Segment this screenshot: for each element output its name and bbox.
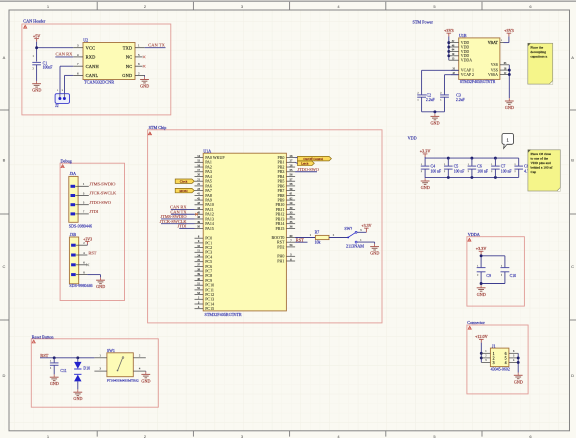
microcontroller U1A body [203,148,286,317]
junction dots on rails [447,157,497,179]
wire CANH to J2 [60,66,73,94]
svg-text:VDD: VDD [461,41,470,45]
svg-text:+3.3V: +3.3V [420,149,431,154]
regulator U1B body [459,33,500,84]
svg-text:C: C [3,264,6,269]
svg-text:U2: U2 [83,38,88,43]
port On/Off Control at PB0 [298,156,332,161]
svg-text:GND: GND [370,251,379,256]
svg-text:U1A: U1A [203,148,211,153]
svg-text:Clock: Clock [180,179,188,183]
svg-text:Place C8 close: Place C8 close [531,152,552,156]
svg-text:C5: C5 [454,165,459,169]
block box STM Chip [148,130,382,323]
svg-text:43045-0602: 43045-0602 [491,366,510,371]
svg-text:D: D [3,373,6,378]
ground VDDA [477,285,486,297]
svg-text:2: 2 [491,171,492,173]
svg-text:JTCK-SWCLK: JTCK-SWCLK [89,191,117,196]
svg-text:U1B: U1B [459,33,467,38]
svg-text:100nF: 100nF [43,66,53,70]
svg-text:2: 2 [501,274,502,276]
svg-text:100 nF: 100 nF [431,169,442,173]
SW1 pins [94,353,145,371]
svg-text:CANL: CANL [86,73,99,78]
svg-text:GND: GND [140,84,149,89]
block box VDDA [467,237,525,306]
svg-text:100 nF: 100 nF [477,169,488,173]
svg-text:2: 2 [440,92,441,94]
svg-text:1: 1 [493,352,495,356]
svg-text:RST: RST [88,250,96,255]
power +3V3 right [504,28,514,37]
switch SW? 2113NAM [344,226,364,248]
svg-text:PTS645SM43SMTR92: PTS645SM43SMTR92 [107,378,139,382]
note place C8 close [528,150,560,191]
svg-text:+12.0V: +12.0V [475,334,488,339]
svg-text:1: 1 [515,164,516,166]
svg-text:1: 1 [477,265,478,267]
svg-text:JTDI: JTDI [177,224,187,229]
connector J2 [55,89,69,108]
net label CAN RX [55,52,73,57]
capacitor C8 [514,158,532,177]
svg-text:C9: C9 [486,274,491,278]
svg-text:VDD: VDD [461,50,470,54]
ground below C11 [50,374,59,386]
capacitor C11 [50,358,67,375]
svg-text:+3V3: +3V3 [444,28,454,33]
svg-text:2: 2 [50,368,51,370]
svg-text:JTDI: JTDI [89,209,98,214]
wire switch to gnd [357,238,375,244]
svg-text:SDS-9980446: SDS-9980446 [69,224,92,229]
svg-text:J3A: J3A [70,171,77,176]
svg-text:RST: RST [40,353,48,358]
wire VCAP2 to C3 [445,75,459,95]
block box CAN Header [22,24,171,115]
compile warning mark [24,25,27,28]
svg-text:JTMS-SWDIO: JTMS-SWDIO [89,181,115,186]
svg-text:PD2: PD2 [277,244,284,249]
svg-text:TCAN332DCNR: TCAN332DCNR [84,79,114,84]
svg-text:J1: J1 [492,343,496,348]
svg-text:PA15: PA15 [205,226,214,231]
svg-text:TXD: TXD [123,45,133,50]
block box Connector [467,325,528,394]
wire VBAT to +3V3 [504,36,509,42]
svg-text:1: 1 [440,100,441,102]
svg-text:CAN RX: CAN RX [56,52,74,57]
svg-text:VDD: VDD [408,136,417,141]
net labels JTMS-SWDIO JTCK-SWCLK JTDO-SWO JTDI [89,181,117,214]
svg-text:C7: C7 [501,165,506,169]
ground below VDD rail [421,178,430,190]
svg-text:SW1: SW1 [107,348,115,353]
U1B right pin VBAT [488,39,504,45]
svg-text:GND: GND [477,292,486,297]
svg-text:1: 1 [501,265,502,267]
net label JTDI at PA15 [177,224,194,229]
svg-text:+3.3V: +3.3V [361,223,371,228]
svg-text:JTDO-SWO: JTDO-SWO [89,200,111,205]
net label JTMS-SWDIO at PA13 [160,214,194,219]
ground at switch [370,244,379,256]
wires C2 C3 to gnd [422,97,445,112]
svg-text:D10: D10 [83,366,90,370]
ground at SW1 [141,372,150,384]
wire CANL to J2 [65,75,74,93]
svg-text:10k: 10k [315,240,321,244]
svg-text:STM32F405RGT6TR: STM32F405RGT6TR [205,312,242,317]
net label RST at U1A RST pin [295,237,307,242]
ground below D10 [73,389,82,401]
sheet outer top edge [0,0,576,2]
svg-text:Debug: Debug [61,158,73,163]
svg-text:GND: GND [431,120,440,125]
svg-text:+3V3: +3V3 [83,237,92,241]
svg-text:1: 1 [421,164,422,166]
svg-text:A: A [3,55,6,60]
connector J3B body [69,232,92,288]
svg-text:5: 5 [505,356,507,360]
ground below C1 [32,81,41,93]
svg-text:GND: GND [50,381,59,386]
svg-text:Cap: Cap [531,170,537,174]
svg-text:Reset Button: Reset Button [32,334,55,339]
ground below C2 C3 [431,114,440,126]
net label CAN TX at PA12 [170,209,197,215]
U1A left pins PA0-PA15 [195,155,226,231]
svg-text:R7: R7 [315,231,320,235]
svg-text:1: 1 [491,164,492,166]
power +3.3V VDDA [476,246,487,255]
junction +5V node [35,46,38,49]
block box Debug [60,163,124,300]
svg-text:2: 2 [493,356,495,360]
speech bubble 1 [502,134,514,149]
wire +3V3 VDD bus [448,36,450,60]
wires VDDA top [481,255,505,268]
svg-text:Latch: Latch [301,161,309,165]
svg-text:2: 2 [477,274,478,276]
svg-text:2: 2 [444,171,445,173]
svg-text:GND: GND [505,105,514,110]
wire R7 to switch [329,233,348,238]
svg-text:decoupling: decoupling [530,50,546,54]
power +3V3 left [444,28,454,37]
svg-text:CANH: CANH [86,64,100,69]
junction dots on VSS bus [508,69,511,76]
wire junction down [434,112,436,114]
svg-text:6: 6 [505,352,507,356]
svg-text:CAN Header: CAN Header [23,19,46,24]
svg-text:VSSA: VSSA [488,73,498,77]
VDD decoupling rails [425,158,519,177]
svg-text:capacitors n: capacitors n [530,55,547,59]
capacitor C6 [468,158,488,177]
wire RST to SW1 [40,357,94,359]
svg-text:STM32F405RGT6TR: STM32F405RGT6TR [460,79,496,84]
junctions on J1 gnd bus [517,356,520,363]
ground at U2 GND pin [140,77,149,89]
svg-text:RXD: RXD [86,55,96,60]
U2 right pins TXD NC NC GND [122,44,145,78]
wire U2 GND pin down [144,75,146,76]
svg-text:SW?: SW? [344,226,352,231]
net label CAN RX at PA11 [170,205,194,210]
junction VDDA bottom [480,282,483,285]
capacitor C2 [417,92,434,102]
svg-text:C: C [571,264,574,269]
svg-text:100 nF: 100 nF [454,169,465,173]
svg-text:VDD pins and: VDD pins and [531,161,551,165]
transceiver U2 body [83,38,135,85]
svg-text:B: B [571,158,574,163]
svg-text:VDD: VDD [461,54,470,58]
svg-text:2.2uF: 2.2uF [456,98,465,102]
power +5V (CAN) [33,33,40,42]
svg-text:C3: C3 [456,94,461,98]
capacitor C5 [444,158,464,177]
port Latch at PB1 [298,161,315,166]
capacitor C10 [501,265,517,278]
power +12.0V [475,334,488,343]
wire VSS bus to gnd [508,65,510,98]
wire switch to +3.3V [357,228,366,232]
svg-text:PB15: PB15 [275,226,284,231]
svg-text:VSS: VSS [491,63,498,67]
svg-text:+3V3: +3V3 [504,28,514,33]
svg-text:GND: GND [96,284,105,289]
wires PB0 PB1 to ports [295,158,297,164]
svg-text:J3B: J3B [70,232,77,237]
wire C1 to gnd [36,65,38,81]
J3B pads and pins 2 4 6 8 [71,241,87,276]
capacitor C3 [440,92,465,102]
ground at J3B pin 8 [96,277,105,289]
U1A right pins PB0-PB15 [275,155,295,231]
svg-text:GND: GND [122,73,132,78]
svg-text:A: A [571,55,574,60]
svg-text:C2: C2 [427,94,432,98]
U2 left pins VCC RXD CANH CANL [73,44,99,78]
junctions on +12V bus [480,352,483,360]
svg-text:SDS-9980446: SDS-9980446 [69,283,92,288]
ground at VSS [505,98,514,110]
svg-text:NC: NC [126,55,133,60]
svg-text:PH1: PH1 [277,258,284,263]
wire +5V to VCC [37,42,74,62]
junction at gnd tap [433,110,436,113]
svg-text:VDD: VDD [461,45,470,49]
power +3.3V VDD rail [420,149,431,158]
wire +3.3V to rail [424,157,426,158]
svg-text:behind a 100 nf: behind a 100 nf [531,166,554,170]
junction dots on VDD bus [447,41,450,57]
svg-text:STM Chip: STM Chip [149,125,167,130]
svg-text:NC: NC [126,64,133,69]
ground at J1 [514,373,523,385]
svg-text:D: D [571,373,574,378]
junction VDDA top [480,254,483,257]
compile warning mark [148,132,151,135]
block box Reset Button [31,339,158,407]
wire SW1 pin4 to gnd [145,370,147,373]
wire +12.0V bus [480,343,482,363]
no-connect marks on U2 NC pins [143,56,146,68]
capacitor C4 [421,158,441,177]
svg-text:VSS: VSS [491,68,498,72]
U1A left pins PC0-PC15 [195,235,215,311]
TVS diode D10 [74,358,90,390]
wire VCAP1 to C2 [422,70,459,94]
svg-text:+5V: +5V [33,33,40,38]
svg-text:1: 1 [50,360,51,362]
capacitor C7 [491,158,511,177]
svg-text:On/Off Control: On/Off Control [303,157,323,161]
port Clock at PA5 [175,179,194,183]
U1A right pins BOOT0 RST PD2 PH0 PH1 [272,235,296,264]
svg-text:2: 2 [468,171,469,173]
svg-text:GND: GND [514,379,523,384]
svg-text:C6: C6 [477,165,482,169]
svg-text:2: 2 [421,171,422,173]
U1B right pins VSS VSSA [488,62,509,77]
svg-text:RST: RST [296,237,304,242]
wire BOOT0 to R7 [295,233,315,238]
capacitor C1 [32,55,52,70]
compile warning mark [32,340,35,343]
svg-text:3: 3 [493,361,495,365]
U1B left pins VDD VDDA [449,40,472,63]
no-connect mark J3B pin 6 [86,264,89,267]
net label JTDO-SWO at PB3 [295,167,319,172]
wire J3B pin 8 to gnd [87,275,100,278]
svg-text:2113NAM: 2113NAM [346,244,364,249]
svg-text:VDDA: VDDA [468,232,480,237]
svg-text:GND: GND [141,378,150,383]
svg-text:GND: GND [73,396,82,401]
svg-text:C10: C10 [510,274,517,278]
capacitor C9 [477,265,491,278]
compile warning mark [468,326,471,329]
junctions on RST wire [53,356,80,359]
svg-text:GND: GND [32,88,41,93]
svg-text:1: 1 [444,164,445,166]
svg-text:JTDO-SWO: JTDO-SWO [297,167,319,172]
svg-text:VDDA: VDDA [461,59,472,63]
svg-text:STM Power: STM Power [413,19,434,24]
wire rail to gnd [424,176,426,179]
svg-text:VCAP 1: VCAP 1 [461,69,474,73]
svg-text:2: 2 [418,92,419,94]
svg-text:CAN TX: CAN TX [148,43,165,48]
connector J1 body [490,343,510,371]
switch SW1 body [107,348,139,382]
svg-text:VCC: VCC [86,45,96,50]
wire J1 right bus to gnd [517,353,519,372]
wires VDDA bottom [481,272,505,285]
svg-text:C11: C11 [60,369,66,373]
svg-text:Connector: Connector [467,320,485,325]
net label JTCK-SWCLK at PA14 [160,219,195,224]
compile warning mark [61,165,64,168]
svg-text:1: 1 [468,164,469,166]
svg-text:PC15: PC15 [205,306,214,311]
J1 right pins 6 5 4 [505,350,519,365]
compile warning mark [468,238,471,241]
resistor R7 [315,231,329,245]
net label CAN TX [145,43,166,48]
svg-text:Place the: Place the [530,45,543,49]
svg-text:GND: GND [421,185,430,190]
U1B pins VCAP1 VCAP2 [451,68,474,78]
J1 left pins 1 2 3 [481,350,494,365]
svg-text:VCAP 2: VCAP 2 [461,73,474,77]
svg-text:+3.3V: +3.3V [476,246,487,251]
J3A pads and pins 1 3 5 7 [71,182,89,215]
svg-text:J2: J2 [55,103,59,108]
svg-text:B: B [3,158,6,163]
svg-text:VBAT: VBAT [488,41,499,45]
power +3.3V at switch [361,223,371,232]
svg-text:C4: C4 [431,165,436,169]
svg-text:100 nF: 100 nF [501,169,512,173]
note place decoupling capacitors [528,43,553,84]
svg-text:to one of the: to one of the [531,156,549,160]
svg-text:2.2uF: 2.2uF [426,98,435,102]
svg-text:4: 4 [505,361,507,365]
power +3V3 at J3B pin 2 [83,237,92,245]
connector J3A body [69,171,92,229]
svg-text:2: 2 [515,171,516,173]
port MOSI at PA7 [175,188,194,192]
svg-text:MOSI: MOSI [180,189,188,193]
svg-text:1: 1 [418,100,419,102]
